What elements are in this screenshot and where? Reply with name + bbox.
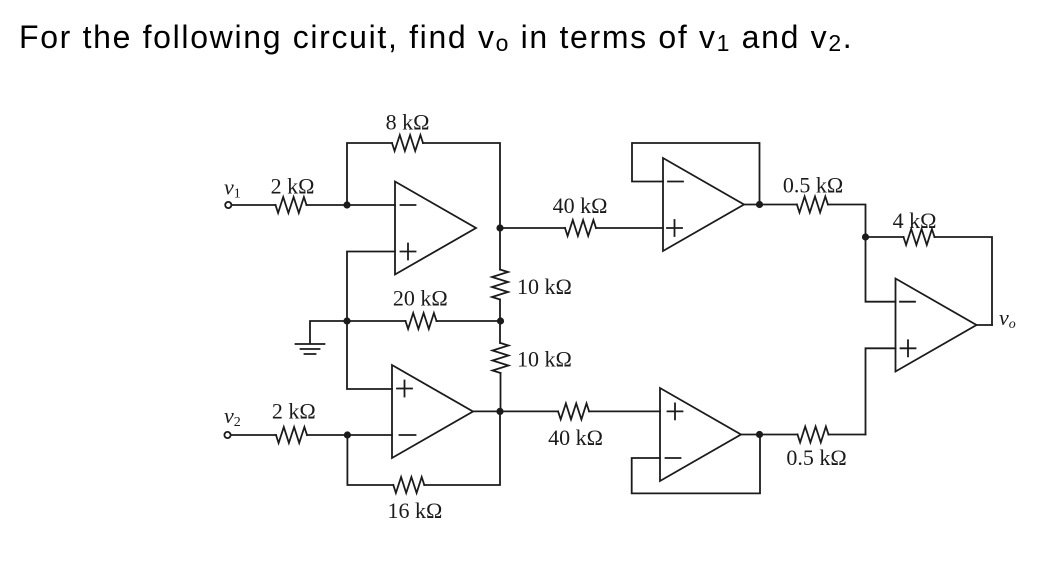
svg-text:16 kΩ: 16 kΩ xyxy=(387,498,442,523)
svg-text:4 kΩ: 4 kΩ xyxy=(893,208,937,233)
svg-text:v2: v2 xyxy=(224,403,241,430)
svg-text:10 kΩ: 10 kΩ xyxy=(517,274,572,299)
svg-text:8 kΩ: 8 kΩ xyxy=(386,110,430,135)
svg-text:40 kΩ: 40 kΩ xyxy=(553,193,608,218)
svg-text:10 kΩ: 10 kΩ xyxy=(517,347,572,372)
svg-text:v1: v1 xyxy=(224,175,241,202)
svg-text:20 kΩ: 20 kΩ xyxy=(393,286,448,311)
svg-text:vo: vo xyxy=(999,305,1016,332)
svg-text:2 kΩ: 2 kΩ xyxy=(271,174,315,199)
svg-text:2 kΩ: 2 kΩ xyxy=(272,399,316,424)
svg-text:0.5 kΩ: 0.5 kΩ xyxy=(783,173,843,198)
svg-text:0.5 kΩ: 0.5 kΩ xyxy=(786,445,846,470)
svg-text:40 kΩ: 40 kΩ xyxy=(548,425,603,450)
